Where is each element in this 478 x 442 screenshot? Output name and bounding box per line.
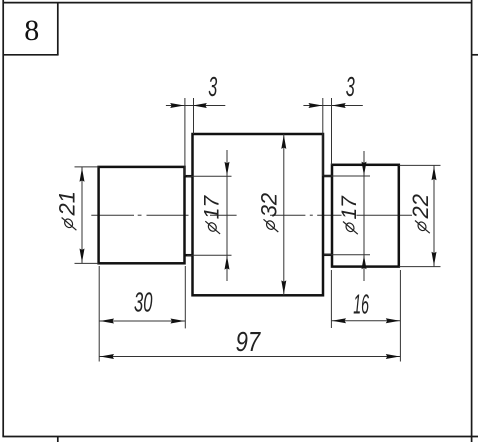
- arrow d32 bottom: [281, 280, 286, 294]
- right cylinder d22: [332, 165, 399, 267]
- dimension line: [433, 165, 435, 266]
- extension line bottom: [75, 262, 99, 264]
- arrow d21 top: [80, 168, 85, 182]
- problem number box: [3, 3, 58, 55]
- arrow 16 right: [386, 318, 400, 323]
- label d21: [55, 191, 80, 230]
- arrow d32 top: [281, 135, 286, 149]
- svg-text:22: 22: [408, 194, 433, 219]
- shaft outline: left cylinder d21: [99, 167, 185, 263]
- dimension line: [81, 167, 83, 264]
- arrow d17L top (outside, pointing down): [225, 162, 230, 176]
- arrow 30 right: [171, 319, 185, 324]
- extension line top: [399, 164, 441, 166]
- stub of adjacent cell bottom: [57, 437, 59, 442]
- extension line left: [98, 266, 100, 362]
- dimension line: [331, 320, 400, 322]
- extension line right: [399, 270, 401, 362]
- extension line top: [324, 175, 370, 177]
- dimension line: [226, 150, 228, 281]
- arrow d17R bottom (outside, pointing up): [362, 255, 367, 269]
- svg-text:30: 30: [134, 287, 153, 318]
- arrow 30 left: [100, 319, 114, 324]
- left neck d17 top edge: [185, 175, 193, 178]
- dimension line: [99, 356, 400, 358]
- stub of adjacent cell right: [472, 54, 478, 56]
- centerline (dash-dot axis): [91, 214, 134, 216]
- center cylinder d32: [193, 134, 324, 295]
- dimension line: [283, 134, 285, 295]
- svg-text:21: 21: [55, 191, 80, 216]
- svg-text:17: 17: [338, 195, 361, 220]
- arrow 16 left: [332, 318, 346, 323]
- label d32: [257, 193, 282, 232]
- extension line left: [184, 98, 186, 176]
- arrow d22 bottom: [432, 252, 437, 266]
- extension line bottom: [399, 266, 441, 268]
- extension line top: [75, 166, 99, 168]
- right neck d17 top edge: [323, 175, 332, 178]
- right neck d17 bottom edge: [323, 254, 332, 257]
- arrow 97 left: [100, 354, 114, 359]
- extension line right: [193, 98, 195, 134]
- extension line right: [184, 266, 186, 328]
- dimension line: [363, 151, 365, 281]
- svg-text:3: 3: [208, 71, 217, 102]
- extension line bottom: [324, 254, 370, 256]
- dimension line: [99, 320, 185, 322]
- label d22: [408, 194, 433, 233]
- arrow 3R right (outside, pointing left): [332, 103, 346, 108]
- extension line top: [187, 175, 232, 177]
- arrow 3L right (outside, pointing left): [193, 103, 207, 108]
- arrow d22 top: [432, 166, 437, 180]
- label d17 right: [338, 195, 361, 234]
- dimension line with tails: [166, 105, 225, 107]
- svg-text:17: 17: [200, 195, 223, 220]
- arrow d17R top (outside, pointing down): [362, 162, 367, 176]
- arrow 3R left (outside, pointing right): [309, 103, 323, 108]
- svg-text:3: 3: [346, 71, 355, 102]
- svg-text:32: 32: [257, 193, 282, 217]
- extension line right: [331, 98, 333, 165]
- extension line left: [322, 98, 324, 176]
- svg-text:16: 16: [353, 289, 369, 320]
- svg-text:97: 97: [236, 326, 262, 357]
- arrow d17L bottom (outside, pointing up): [225, 256, 230, 270]
- arrow 3L left (outside, pointing right): [170, 103, 184, 108]
- left neck d17 bottom edge: [185, 254, 193, 257]
- dimension line with tails: [303, 105, 362, 107]
- arrow d21 bottom: [80, 249, 85, 263]
- arrow 97 right: [386, 354, 400, 359]
- svg-text:8: 8: [24, 14, 39, 47]
- extension line left: [330, 270, 332, 328]
- label d17 left: [200, 195, 223, 234]
- extension line bottom: [187, 254, 232, 256]
